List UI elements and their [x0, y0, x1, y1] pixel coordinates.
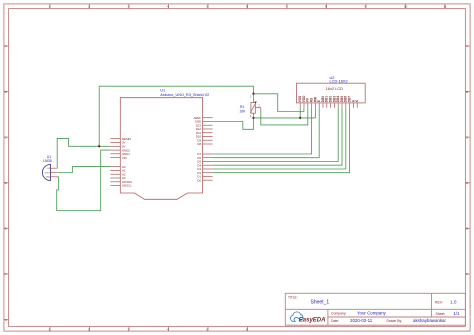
- svg-text:B: B: [5, 90, 7, 94]
- wire D3 net: Arduino D3 to LCD DB6: [213, 108, 346, 169]
- svg-text:EasyEDA: EasyEDA: [299, 318, 326, 324]
- wire D4 net: Arduino D4 to LCD DB5: [213, 108, 342, 165]
- svg-text:VIN: VIN: [122, 156, 127, 160]
- svg-text:A: A: [466, 44, 468, 48]
- wire 5V net: junction up to top rail over to pot R1 top: [99, 86, 253, 146]
- svg-text:U1: U1: [160, 89, 165, 93]
- svg-text:F: F: [466, 272, 468, 276]
- svg-text:D8: D8: [197, 142, 201, 146]
- wire GND net: pot bottom to LCD VSS and RW: [253, 108, 315, 118]
- lm35 U3: [42, 155, 57, 180]
- LM35 pin 3 GND: [51, 176, 57, 178]
- svg-text:10: 10: [404, 5, 408, 9]
- LM35 pin names: [45, 168, 51, 179]
- wire D5 net: Arduino D5 to LCD DB4: [213, 108, 339, 162]
- svg-text:GND: GND: [46, 177, 51, 179]
- svg-text:16x2 LCD: 16x2 LCD: [326, 86, 343, 91]
- wire D2 net: Arduino D2 to LCD DB7: [213, 108, 350, 173]
- svg-text:VOUT: VOUT: [45, 172, 51, 174]
- svg-text:2020-03-11: 2020-03-11: [350, 318, 373, 323]
- svg-text:Drawn By:: Drawn By:: [387, 319, 403, 323]
- U1 body outline: [120, 98, 202, 200]
- svg-text:akshaybawankar: akshaybawankar: [413, 318, 446, 323]
- wire wiper net: pot wiper to LCD V0: [261, 108, 308, 125]
- wire A0 net: LM35 Vout to Arduino A0: [57, 167, 110, 173]
- wire GND net: Arduino GND to pot bottom: [213, 118, 254, 129]
- svg-text:11: 11: [444, 5, 447, 9]
- U1 pin stubs (RESET,3V,5V,GND2,GND1,VIN,A0-A5 left; AREF,GND,D13-D0 right): [110, 118, 212, 186]
- LM35 pin 2 Vout: [51, 172, 57, 174]
- arduino U1: [110, 89, 212, 200]
- wire 5V net: LM35 +Vs to 5V junction: [57, 138, 110, 168]
- svg-text:1/1: 1/1: [453, 311, 460, 316]
- svg-text:A: A: [5, 44, 7, 48]
- U2 body outline: [297, 83, 366, 103]
- svg-text:E: E: [5, 227, 7, 231]
- svg-text:+VS: +VS: [46, 168, 51, 170]
- svg-text:Sheet_1: Sheet_1: [311, 300, 330, 306]
- R1 adjustment arrow: [250, 102, 256, 113]
- svg-text:REV:: REV:: [435, 300, 443, 304]
- junction dot 5V at Arduino: [98, 145, 100, 147]
- wire GND2 net: LM35 GND to Arduino GND2: [57, 150, 111, 211]
- lcd U2: [297, 75, 366, 108]
- U2 pin stubs 1-16: [300, 103, 357, 108]
- wire 5V net: pot top junction to LCD VDD: [253, 94, 304, 112]
- junction dot 5V at pot top: [252, 93, 254, 95]
- wire D6 net: Arduino D6 to LCD E: [213, 108, 320, 158]
- svg-text:B: B: [466, 90, 468, 94]
- svg-text:TITLE:: TITLE:: [288, 295, 298, 299]
- R1 wiper pin 2: [255, 106, 260, 108]
- R1 body: [251, 103, 255, 114]
- junction dot GND at LCD VSS: [299, 117, 301, 119]
- R1 pin 1: [252, 94, 254, 103]
- LM35 pin 1 +Vs: [51, 167, 57, 169]
- title block: [285, 293, 465, 325]
- svg-text:Sheet:: Sheet:: [436, 312, 446, 316]
- svg-text:Company:: Company:: [331, 311, 347, 315]
- wire D7 net: Arduino D7 to LCD RS: [213, 108, 312, 154]
- svg-text:Arduino_UNO_R3_Shield V2: Arduino_UNO_R3_Shield V2: [160, 93, 209, 97]
- svg-text:Date:: Date:: [331, 319, 339, 323]
- U2 pin names VSS,VDD,V0,RS,RW,E,DB0-DB7,A,K: [298, 95, 359, 102]
- potentiometer R1 10K: [239, 94, 260, 118]
- svg-text:F: F: [5, 272, 7, 276]
- svg-text:D0: D0: [197, 178, 201, 182]
- svg-text:1.0: 1.0: [450, 299, 457, 304]
- U1 left pin names: [122, 137, 132, 188]
- EasyEDA logo: [291, 312, 326, 324]
- svg-text:LM35: LM35: [43, 159, 52, 163]
- svg-text:Your Company: Your Company: [357, 311, 387, 316]
- svg-text:10K: 10K: [239, 109, 246, 113]
- U1 right pin names: [194, 116, 202, 182]
- svg-text:E: E: [466, 227, 468, 231]
- svg-text:A5/SCL: A5/SCL: [122, 184, 132, 188]
- R1 pin 3: [252, 113, 254, 118]
- junction dot GND at pot bottom: [252, 117, 254, 119]
- LM35 body (TO-92 half circle): [42, 164, 50, 180]
